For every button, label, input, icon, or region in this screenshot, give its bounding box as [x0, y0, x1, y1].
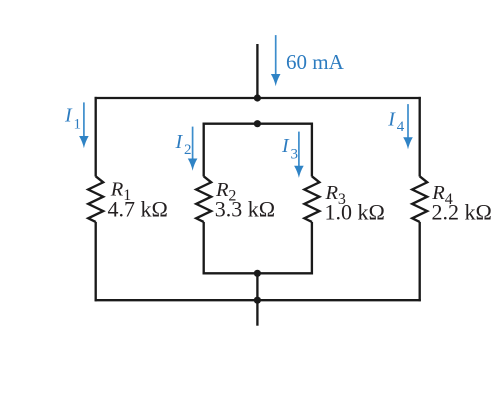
- current arrow I2: [188, 127, 198, 171]
- svg-text:3.3 kΩ: 3.3 kΩ: [215, 196, 275, 221]
- resistor R3: [304, 176, 319, 222]
- current source arrow 60 mA: [271, 35, 281, 86]
- junction node top (outer): [254, 94, 261, 101]
- junction node bottom (outer): [254, 297, 261, 304]
- current arrow I4: [403, 104, 413, 149]
- resistor R1: [88, 176, 103, 222]
- wire top stub (current source lead): [256, 44, 258, 98]
- resistor R4: [412, 176, 427, 222]
- svg-text:I: I: [387, 108, 396, 130]
- svg-text:4.7 kΩ: 4.7 kΩ: [108, 196, 168, 221]
- wire outer top: [95, 97, 421, 99]
- svg-text:4: 4: [397, 119, 405, 135]
- svg-text:2: 2: [184, 142, 192, 158]
- wire inner right upper: [311, 123, 313, 177]
- wire outer right upper: [419, 97, 421, 177]
- wire bottom stub: [256, 300, 258, 326]
- svg-text:I: I: [281, 135, 290, 157]
- wire outer left upper: [95, 97, 97, 177]
- svg-text:1.0 kΩ: 1.0 kΩ: [325, 200, 385, 225]
- wire outer bottom: [95, 299, 421, 301]
- wire bottom link: [256, 273, 258, 300]
- svg-text:I: I: [64, 105, 73, 127]
- junction node bottom (inner): [254, 270, 261, 277]
- wire inner left upper: [203, 123, 205, 177]
- svg-text:60 mA: 60 mA: [286, 50, 345, 74]
- svg-text:1: 1: [74, 116, 82, 132]
- wire inner bottom: [203, 272, 313, 274]
- wire inner right lower: [311, 222, 313, 275]
- wire inner top: [203, 123, 313, 125]
- junction node top (inner): [254, 120, 261, 127]
- wire inner left lower: [203, 222, 205, 275]
- wire outer left lower: [95, 222, 97, 301]
- current arrow I3: [294, 132, 304, 178]
- resistor R2: [196, 176, 211, 222]
- svg-text:3: 3: [291, 147, 299, 163]
- svg-text:2.2 kΩ: 2.2 kΩ: [432, 200, 492, 225]
- wire outer right lower: [419, 222, 421, 301]
- current arrow I1: [79, 102, 89, 148]
- svg-text:I: I: [175, 131, 184, 153]
